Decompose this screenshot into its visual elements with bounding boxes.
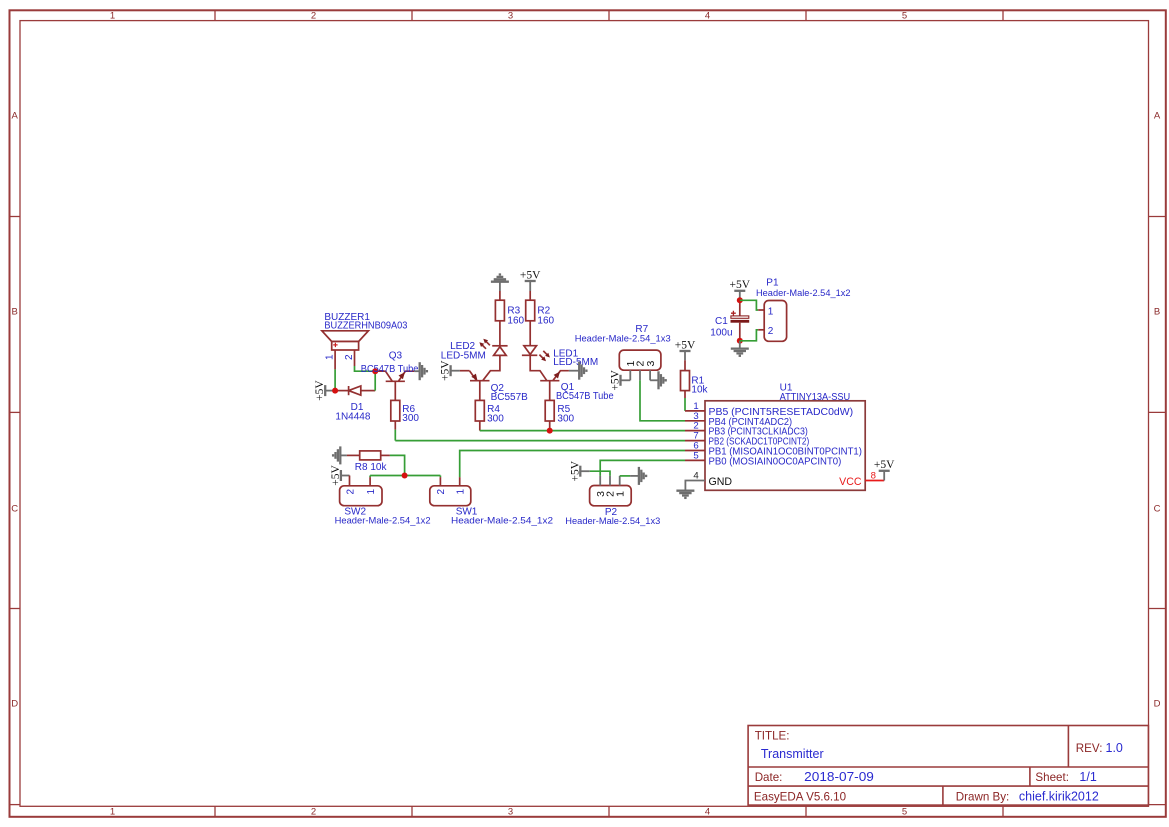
header SW2 Header-Male-2.54_1x2 bbox=[335, 486, 431, 527]
svg-text:1/1: 1/1 bbox=[1079, 770, 1096, 784]
wire D1 anode bbox=[361, 390, 375, 392]
resistor R8 10k bbox=[347, 451, 390, 473]
svg-text:BC547B Tube: BC547B Tube bbox=[556, 391, 614, 402]
U1 pin 4 GND bbox=[685, 471, 732, 491]
buzzer pin 2 bbox=[344, 350, 355, 366]
svg-text:D: D bbox=[11, 699, 18, 710]
resistor R1 10k bbox=[681, 360, 709, 395]
svg-text:C: C bbox=[1154, 504, 1161, 515]
transistor Q3 BC547B bbox=[361, 350, 419, 400]
svg-text:3: 3 bbox=[508, 11, 513, 22]
svg-text:2: 2 bbox=[436, 488, 447, 494]
svg-text:1.0: 1.0 bbox=[1106, 741, 1123, 755]
wire R3 to LED2 bbox=[499, 321, 501, 346]
wire R4 bottom bbox=[479, 421, 481, 431]
svg-text:5: 5 bbox=[693, 450, 698, 461]
svg-text:2: 2 bbox=[345, 488, 356, 494]
wire +5V to P2 pin2 bbox=[590, 471, 610, 476]
svg-text:C1: C1 bbox=[715, 316, 728, 327]
svg-text:BC547B Tube: BC547B Tube bbox=[361, 364, 419, 375]
wire buzzer pin2 to node bbox=[355, 366, 376, 371]
wire net PB3 (R4,R5 to U1 pin2) bbox=[480, 430, 685, 432]
buzzer BUZZER1 bbox=[322, 312, 408, 350]
junction (+5V / buzzer pin1 / D1) bbox=[332, 388, 338, 394]
svg-text:1: 1 bbox=[110, 11, 115, 22]
svg-text:4: 4 bbox=[693, 471, 699, 482]
ground (above R3) bbox=[491, 275, 509, 292]
header P2 Header-Male-2.54_1x3 bbox=[565, 486, 660, 527]
wire C1 bottom to P1 pin2 bbox=[740, 330, 758, 341]
TITLEBLOCK bbox=[748, 726, 1148, 806]
wire buzzer pin1 to +5V node bbox=[334, 369, 336, 390]
capacitor C1 100u bbox=[710, 300, 749, 341]
svg-text:5: 5 bbox=[902, 807, 907, 818]
svg-text:chief.kirik2012: chief.kirik2012 bbox=[1019, 790, 1099, 804]
svg-text:VCC: VCC bbox=[839, 476, 862, 488]
svg-text:Transmitter: Transmitter bbox=[761, 747, 824, 761]
wire R6 bottom bbox=[394, 421, 396, 441]
resistor R6 300 bbox=[391, 400, 420, 424]
svg-text:B: B bbox=[12, 307, 18, 318]
header P1 Header-Male-2.54_1x2 bbox=[756, 278, 851, 342]
svg-text:1: 1 bbox=[768, 306, 774, 317]
svg-text:300: 300 bbox=[402, 413, 419, 424]
+5V (Q2 emitter) bbox=[440, 360, 460, 381]
U1 pin 7 PB2 bbox=[685, 431, 809, 448]
wire net PB2 (R6 to U1 pin7) bbox=[395, 440, 685, 442]
svg-text:1N4448: 1N4448 bbox=[335, 411, 370, 422]
svg-text:1: 1 bbox=[366, 488, 377, 494]
P2 pin 2 bbox=[605, 476, 617, 497]
junction (C1 / P1 pin2 / GND) bbox=[737, 338, 743, 344]
svg-text:10k: 10k bbox=[691, 384, 708, 395]
wire C1 top to P1 pin1 bbox=[740, 300, 758, 310]
ground (R7 pin3) bbox=[650, 371, 666, 389]
P2 pin 1 bbox=[614, 476, 626, 497]
svg-text:1: 1 bbox=[324, 354, 335, 360]
wire R5 bottom bbox=[549, 421, 551, 431]
svg-text:PB0 (MOSIAIN0OC0APCINT0): PB0 (MOSIAIN0OC0APCINT0) bbox=[709, 456, 842, 467]
svg-text:300: 300 bbox=[557, 413, 574, 424]
ground (P2 pin1) bbox=[630, 467, 646, 485]
svg-text:160: 160 bbox=[537, 316, 554, 327]
svg-text:TITLE:: TITLE: bbox=[755, 729, 790, 742]
svg-text:Drawn By:: Drawn By: bbox=[956, 791, 1009, 804]
wire SW2 pin1 to SW1 pin2 bbox=[370, 475, 440, 477]
SW1 pin 1 bbox=[456, 477, 467, 494]
svg-text:160: 160 bbox=[507, 316, 524, 327]
svg-text:100u: 100u bbox=[710, 328, 732, 339]
wire LED2 to Q2 collector bbox=[483, 355, 500, 380]
wire net PB4 (R7 pin2 to U1 pin3) bbox=[640, 380, 685, 421]
U1 pin 6 PB1 bbox=[685, 441, 862, 458]
+5V (above R2) bbox=[520, 269, 541, 291]
junction (R5 / PB3 net) bbox=[547, 428, 553, 434]
+5V (VCC) bbox=[874, 459, 895, 480]
resistor R2 160 bbox=[526, 291, 555, 327]
svg-text:Header-Male-2.54_1x3: Header-Male-2.54_1x3 bbox=[565, 516, 660, 527]
U1 pin 3 PB4 bbox=[685, 411, 792, 428]
+5V (above R1) bbox=[675, 339, 696, 360]
SW2 pin 2 bbox=[345, 476, 356, 495]
wire net PB0 (P2 pin3 to U1 pin5) bbox=[600, 460, 685, 476]
svg-text:Header-Male-2.54_1x2: Header-Male-2.54_1x2 bbox=[335, 516, 431, 527]
svg-text:D: D bbox=[1154, 699, 1161, 710]
wire R1 to U1 pin1 bbox=[684, 391, 686, 411]
U1 pin 1 PB5 bbox=[685, 401, 853, 418]
+5V (R7 pin1) bbox=[610, 369, 631, 390]
svg-text:GND: GND bbox=[709, 476, 733, 488]
wire +5V to Q2 emitter bbox=[460, 370, 470, 372]
R7 pin 1 bbox=[625, 361, 637, 381]
svg-text:EasyEDA V5.6.10: EasyEDA V5.6.10 bbox=[754, 791, 846, 804]
IC U1 ATTINY13A-SSU bbox=[705, 383, 865, 491]
svg-text:8: 8 bbox=[871, 471, 876, 482]
+5V (P2) bbox=[569, 460, 590, 481]
wire +5V to D1 cathode bbox=[333, 390, 349, 392]
svg-text:Q3: Q3 bbox=[389, 350, 403, 361]
svg-text:C: C bbox=[11, 504, 18, 515]
resistor R3 160 bbox=[495, 291, 524, 327]
svg-text:ATTINY13A-SSU: ATTINY13A-SSU bbox=[780, 392, 851, 403]
P1 pin 2 bbox=[758, 326, 774, 337]
svg-text:LED-5MM: LED-5MM bbox=[553, 357, 598, 368]
R7 pin 3 bbox=[645, 361, 657, 381]
svg-text:5: 5 bbox=[902, 11, 907, 22]
U1 pin 2 PB3 bbox=[685, 421, 808, 438]
+5V (above C1) bbox=[730, 279, 751, 300]
svg-text:Date:: Date: bbox=[755, 771, 783, 784]
svg-text:BUZZERHNB09A03: BUZZERHNB09A03 bbox=[324, 321, 407, 332]
resistor R5 300 bbox=[545, 400, 574, 424]
svg-text:R8 10k: R8 10k bbox=[355, 462, 388, 473]
SW1 pin 2 bbox=[436, 476, 447, 495]
svg-text:2: 2 bbox=[344, 354, 355, 360]
svg-text:1: 1 bbox=[456, 488, 467, 494]
wire D1 up to node bbox=[374, 371, 376, 390]
wire LED1 to Q1 collector bbox=[530, 355, 546, 380]
svg-text:3: 3 bbox=[645, 361, 657, 367]
svg-text:1: 1 bbox=[110, 807, 115, 818]
diode D1 1N4448 bbox=[335, 386, 370, 422]
svg-text:A: A bbox=[12, 111, 19, 122]
wire R2 to LED1 bbox=[529, 321, 531, 346]
svg-text:2018-07-09: 2018-07-09 bbox=[804, 770, 874, 784]
svg-text:2: 2 bbox=[311, 807, 316, 818]
svg-text:B: B bbox=[1154, 307, 1160, 318]
svg-text:LED-5MM: LED-5MM bbox=[441, 351, 486, 362]
junction (+5V / C1 / P1 pin1) bbox=[737, 297, 743, 303]
SW2 pin 1 bbox=[366, 476, 377, 495]
ground (Q1 emitter) bbox=[569, 362, 587, 380]
U1 pin 8 VCC bbox=[839, 471, 884, 488]
LED1 LED-5MM bbox=[522, 346, 598, 368]
buzzer pin 1 bbox=[324, 350, 335, 369]
junction (buzzer pin2 / D1 / Q3 collector) bbox=[372, 368, 378, 374]
svg-text:Header-Male-2.54_1x2: Header-Male-2.54_1x2 bbox=[451, 516, 553, 527]
U1 pin 5 PB0 bbox=[685, 450, 841, 467]
P2 pin 3 bbox=[595, 476, 607, 497]
wire P2 pin1 to ground bbox=[620, 475, 630, 477]
junction (R8 / SW2 / SW1) bbox=[402, 473, 408, 479]
svg-text:Sheet:: Sheet: bbox=[1035, 771, 1069, 784]
svg-text:1: 1 bbox=[614, 491, 626, 497]
+5V (buzzer) bbox=[314, 380, 333, 401]
resistor R4 300 bbox=[475, 400, 504, 424]
svg-text:REV:: REV: bbox=[1076, 742, 1103, 755]
svg-text:4: 4 bbox=[705, 11, 710, 22]
transistor Q2 BC557B bbox=[470, 371, 529, 403]
LED2 LED-5MM bbox=[441, 339, 508, 362]
+5V (SW2) bbox=[330, 465, 350, 486]
svg-text:300: 300 bbox=[487, 413, 504, 424]
wire R8 to junction bbox=[390, 455, 405, 475]
svg-text:3: 3 bbox=[508, 807, 513, 818]
wire net PB1 (SW1 pin1 to U1 pin6) bbox=[460, 451, 685, 478]
ground (below C1) bbox=[731, 341, 749, 356]
transistor Q1 BC547B bbox=[540, 371, 614, 402]
svg-text:4: 4 bbox=[705, 807, 710, 818]
ground (R8 left) bbox=[333, 446, 347, 464]
svg-text:A: A bbox=[1154, 111, 1161, 122]
svg-text:BC557B: BC557B bbox=[491, 392, 529, 403]
svg-text:2: 2 bbox=[311, 11, 316, 22]
ground (Q3 emitter) bbox=[414, 362, 427, 380]
R7 pin 2 bbox=[635, 361, 647, 381]
svg-text:Header-Male-2.54_1x3: Header-Male-2.54_1x3 bbox=[575, 334, 671, 345]
header SW1 Header-Male-2.54_1x2 bbox=[430, 486, 553, 527]
header R7 Header-Male-2.54_1x3 bbox=[575, 324, 671, 370]
ground (U1 pin4) bbox=[676, 491, 694, 498]
svg-text:2: 2 bbox=[768, 326, 774, 337]
P1 pin 1 bbox=[758, 306, 774, 317]
svg-text:Header-Male-2.54_1x2: Header-Male-2.54_1x2 bbox=[756, 288, 851, 299]
